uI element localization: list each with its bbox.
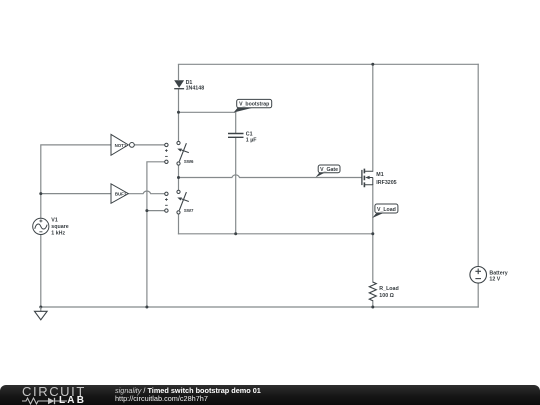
ground [35,307,48,320]
wire C1 bottom stub [235,137,237,233]
label SW6 plus sign [165,149,168,152]
footer CircuitLab logo [22,384,86,399]
svg-text:1 µF: 1 µF [246,137,257,143]
svg-text:NOT1: NOT1 [115,143,127,148]
svg-text:BUF1: BUF1 [115,192,127,197]
wire V1 top stub [40,194,42,219]
node BUF input junction [39,192,42,195]
svg-text:1N4148: 1N4148 [186,86,205,92]
wire V1 bottom to rail [40,235,42,307]
node gate junction [177,176,180,179]
gate NOT1 [111,134,134,155]
svg-text:V1: V1 [51,218,58,224]
battery source Battery 12V [470,267,508,284]
svg-text:M1: M1 [376,172,383,178]
wire NOT output to terminal [135,144,165,146]
svg-text:square: square [51,224,68,230]
wire battery bottom stub [477,283,479,307]
resistor R_Load [369,282,398,301]
terminal SW6 plus [165,143,168,146]
wire D1 cathode to node [178,89,180,112]
wire SW7 bottom to bottom node [178,214,180,234]
gate BUF1 [111,184,128,204]
wire M1 drain vertical [372,64,374,171]
footer title line [115,386,261,395]
node return rail junction [145,306,148,309]
label SW7 minus sign [165,204,168,206]
wire SW6 minus terminal to return [147,162,165,307]
wire SW6 bottom to SW7 top [178,165,180,190]
svg-text:100 Ω: 100 Ω [379,293,394,299]
svg-text:IRF3205: IRF3205 [376,180,396,186]
label SW7 plus sign [165,198,168,201]
svg-text:R_Load: R_Load [379,286,398,292]
flag V_bootstrap [234,99,272,112]
svg-text:V_Load: V_Load [377,207,396,213]
node C1 bottom junction [234,232,237,235]
footer url line [115,394,208,403]
wire BUF input [41,193,111,195]
node R_Load rail junction [371,306,374,309]
transistor M1 [362,169,397,188]
node SW7 return junction [145,209,148,212]
flag V_Gate [316,165,340,177]
switch SW7 [177,190,194,214]
terminal SW6 minus [165,160,168,163]
wire R_Load bottom stub [372,301,374,307]
capacitor C1 [228,131,257,143]
svg-text:SW7: SW7 [184,208,194,213]
svg-text:Battery: Battery [489,270,507,276]
wire NOT input from V1 node [41,145,111,194]
svg-text:V_bootstrap: V_bootstrap [239,102,269,108]
wire bottom rail [41,306,478,308]
node drain top junction [371,63,374,66]
node bootstrap junction [177,111,180,114]
source V1 [33,218,69,237]
wire switch bottom horizontal [179,233,373,235]
node source bottom junction [371,232,374,235]
wire bootstrap node horizontal [179,111,236,113]
wire SW7 minus terminal [147,210,165,212]
wire battery top vertical [477,64,479,266]
terminal SW7 minus [165,209,168,212]
footer bar [0,385,540,405]
terminal SW7 plus [165,192,168,195]
diode D1 [174,64,204,91]
svg-text:V_Gate: V_Gate [320,167,338,173]
svg-text:1 kHz: 1 kHz [51,231,65,237]
wire node to SW6 [178,112,180,141]
wire gate horizontal with hop [179,175,362,178]
svg-text:12 V: 12 V [489,277,500,283]
flag V_Load [372,204,398,218]
wire C1 top stub [235,112,237,133]
label SW6 minus sign [165,155,168,157]
svg-text:SW6: SW6 [184,159,194,164]
wire top rail [179,63,479,65]
switch SW6 [177,141,194,165]
wire BUF output to terminal with hop [129,191,165,194]
node ground junction [39,306,42,309]
wire M1 source to R_Load [372,185,374,282]
